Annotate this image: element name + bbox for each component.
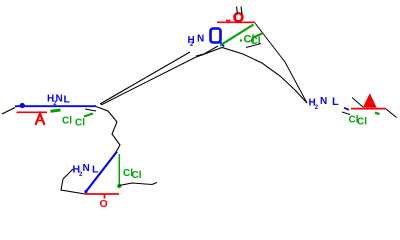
svg-text:N: N (320, 96, 327, 107)
svg-text:N: N (83, 163, 90, 174)
svg-text:Cl: Cl (132, 170, 142, 181)
svg-text:L: L (332, 96, 339, 108)
svg-text:Cl: Cl (357, 117, 367, 128)
svg-text:L: L (92, 164, 99, 176)
svg-text:N: N (197, 34, 204, 45)
svg-text:Cl: Cl (75, 118, 85, 129)
svg-text:Cl: Cl (62, 116, 72, 127)
svg-text:N: N (56, 94, 63, 105)
svg-text:O: O (100, 198, 108, 210)
svg-text:O: O (233, 9, 244, 25)
svg-text:L: L (64, 94, 71, 106)
